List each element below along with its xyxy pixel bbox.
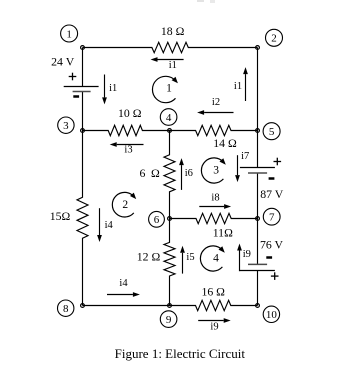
svg-text:18 Ω: 18 Ω <box>161 24 185 38</box>
svg-text:7: 7 <box>269 212 275 224</box>
svg-text:i7: i7 <box>241 151 249 162</box>
svg-text:5: 5 <box>269 126 275 138</box>
svg-text:2: 2 <box>271 33 277 45</box>
svg-text:i5: i5 <box>186 252 194 263</box>
svg-text:1: 1 <box>66 28 72 40</box>
svg-text:i6: i6 <box>185 168 193 179</box>
svg-text:1: 1 <box>166 82 172 94</box>
svg-text:10 Ω: 10 Ω <box>118 106 142 120</box>
svg-text:9: 9 <box>166 314 172 326</box>
svg-text:15Ω: 15Ω <box>50 209 71 223</box>
svg-text:i4: i4 <box>119 278 128 289</box>
svg-text:11Ω: 11Ω <box>213 225 233 239</box>
svg-text:76 V: 76 V <box>260 238 284 252</box>
svg-text:8: 8 <box>63 303 69 315</box>
svg-text:i9: i9 <box>210 321 218 332</box>
svg-text:10: 10 <box>266 309 278 321</box>
svg-text:i8: i8 <box>211 192 219 203</box>
svg-text:3: 3 <box>213 165 219 177</box>
svg-text:3: 3 <box>63 120 69 132</box>
svg-text:i1: i1 <box>234 81 242 92</box>
svg-text:14 Ω: 14 Ω <box>213 136 237 150</box>
svg-text:Ω: Ω <box>151 166 160 180</box>
svg-text:i1: i1 <box>109 83 117 94</box>
svg-text:4: 4 <box>213 252 219 264</box>
svg-text:24 V: 24 V <box>51 54 75 68</box>
svg-text:6: 6 <box>154 214 160 226</box>
svg-text:16 Ω: 16 Ω <box>201 284 225 298</box>
svg-text:4: 4 <box>166 112 172 124</box>
svg-text:i9: i9 <box>243 249 251 260</box>
svg-text:2: 2 <box>122 199 128 211</box>
svg-text:i4: i4 <box>105 220 114 231</box>
svg-text:12 Ω: 12 Ω <box>137 249 161 263</box>
svg-text:87 V: 87 V <box>260 187 284 201</box>
svg-text:i1: i1 <box>169 60 177 71</box>
svg-text:i2: i2 <box>212 97 220 108</box>
svg-text:i3: i3 <box>124 145 132 156</box>
svg-text:6: 6 <box>140 166 146 180</box>
svg-text:Figure 1: Electric Circuit: Figure 1: Electric Circuit <box>115 346 246 361</box>
